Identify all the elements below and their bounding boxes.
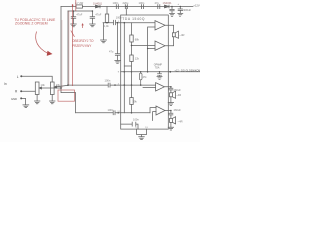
svg-text:1N4001: 1N4001 [163,1,173,5]
svg-text:10k: 10k [56,83,61,87]
svg-text:+12V: +12V [193,3,200,7]
svg-text:4,7 2W: 4,7 2W [75,1,84,5]
svg-text:100n: 100n [113,1,119,5]
svg-text:1N4001: 1N4001 [93,1,103,5]
svg-text:12k: 12k [135,57,140,61]
svg-text:OBEJRZYJ TO: OBEJRZYJ TO [72,39,94,43]
svg-text:TDA: TDA [155,66,160,69]
svg-text:GND: GND [11,97,17,101]
svg-text:ZGODNIE Z OPISEM: ZGODNIE Z OPISEM [15,22,48,26]
svg-text:39k: 39k [133,99,138,103]
svg-text:47u: 47u [155,1,160,5]
svg-text:47u: 47u [109,50,114,54]
svg-text:100n: 100n [116,15,122,19]
svg-text:100n: 100n [139,1,145,5]
svg-text:47uF: 47uF [76,12,82,16]
svg-text:68k: 68k [135,38,140,42]
svg-text:2200uF: 2200uF [182,8,191,12]
svg-text:~4R: ~4R [176,93,181,97]
svg-text:PRZEPLYWY: PRZEPLYWY [72,44,92,48]
svg-text:OPAMP: OPAMP [154,63,163,66]
svg-text:460uF: 460uF [174,108,182,112]
svg-text:100n: 100n [133,117,139,121]
svg-text:100n: 100n [105,79,111,83]
svg-text:220u: 220u [123,1,129,5]
svg-text:100n: 100n [108,108,114,112]
svg-text:~4R: ~4R [178,120,183,124]
svg-text:1,0k: 1,0k [104,25,109,28]
svg-text:L: L [17,75,19,79]
svg-text:460uF: 460uF [174,88,182,92]
svg-text:~4R: ~4R [179,33,184,37]
svg-text:47uF: 47uF [95,12,101,16]
svg-text:TDA 1540Q: TDA 1540Q [122,17,145,21]
svg-text:10k: 10k [41,83,46,87]
svg-text:+12 - DO GLOSNIKOW: +12 - DO GLOSNIKOW [175,70,201,72]
svg-text:In: In [4,82,7,86]
